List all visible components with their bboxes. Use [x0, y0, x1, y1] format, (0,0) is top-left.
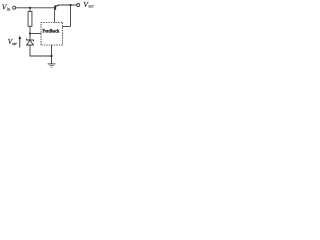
svg-text:Feedback: Feedback: [43, 29, 60, 35]
svg-text:in: in: [7, 6, 10, 11]
svg-text:OUT: OUT: [88, 5, 93, 9]
svg-text:REF: REF: [12, 42, 17, 46]
